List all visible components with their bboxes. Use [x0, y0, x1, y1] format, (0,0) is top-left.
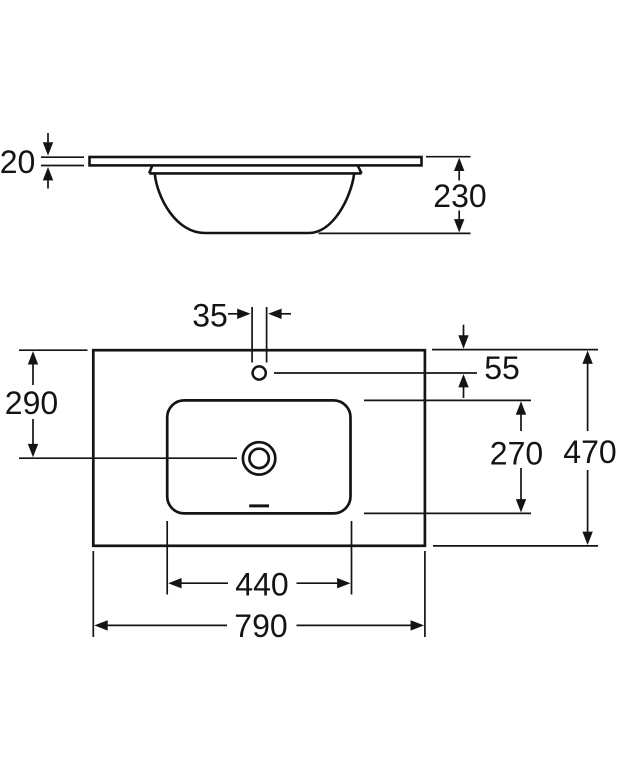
dim 55: upper arrowhead (down)	[458, 335, 468, 348]
dim 270: lower stem	[520, 468, 522, 500]
dim 290: dimension line through drain centre	[19, 457, 237, 459]
mounting flange left slant	[149, 166, 152, 174]
washbasin countertop plate (side profile)	[90, 157, 422, 165]
dim 230: upper stem	[458, 170, 460, 181]
mounting flange right slant	[358, 166, 362, 174]
dim 20: upper arrow stem	[47, 133, 49, 144]
dim 230: upper arrowhead (up)	[454, 158, 464, 171]
dim 790: left extension line	[92, 551, 94, 637]
dim 270: bottom extension line (bowl bottom extended)	[364, 512, 531, 514]
dim 440: left arrowhead (left)	[168, 578, 181, 588]
dim 230: lower stem	[458, 211, 460, 222]
dim 55: hole centre reference line	[274, 372, 477, 374]
dim 790: right arrowhead (right)	[411, 620, 424, 630]
dim 440: right extension line	[351, 521, 353, 595]
bowl opening (rounded rectangle)	[167, 400, 350, 513]
dim 35: right extension line	[266, 307, 268, 363]
drain outer circle	[243, 442, 275, 474]
svg-text:440: 440	[235, 567, 288, 603]
dim 470: upper stem	[587, 362, 589, 431]
dim 290: upper stem	[32, 363, 34, 385]
faucet hole	[253, 366, 266, 379]
dim 35: left arrowhead (right)	[237, 309, 250, 319]
dim 270: upper stem	[520, 413, 522, 431]
dim 290: lower stem	[32, 419, 34, 445]
dim 35: left arrow stem	[228, 313, 239, 315]
dim 440: right arrowhead (right)	[337, 578, 350, 588]
svg-text:290: 290	[5, 385, 58, 421]
dim 20: top extension line	[41, 156, 84, 158]
dim 230: lower arrowhead (down)	[454, 219, 464, 232]
dim 470: lower stem	[587, 470, 589, 534]
dim 35: left extension line	[251, 307, 253, 363]
svg-text:55: 55	[484, 350, 520, 386]
dim 290: upper arrowhead (up)	[28, 351, 38, 364]
dim 35: right arrowhead (left)	[268, 309, 281, 319]
dim 35: right arrow stem	[280, 313, 291, 315]
dim 20: lower arrow stem	[47, 179, 49, 189]
bowl outer profile	[155, 173, 355, 233]
dim 270: lower arrowhead (down)	[516, 499, 526, 512]
svg-text:790: 790	[234, 608, 287, 644]
dim 290: lower arrowhead (down)	[28, 444, 38, 457]
dim 55: lower arrow stem	[463, 386, 465, 398]
dim 270: top extension line (bowl top extended)	[364, 399, 531, 401]
overflow slot mark	[249, 504, 269, 507]
dim 790: left arrowhead (left)	[94, 620, 107, 630]
dim 20: bottom extension line	[41, 165, 84, 167]
dim 55: lower arrowhead (up)	[458, 374, 468, 387]
dim 470: bottom extension line (basin bottom extended)	[433, 545, 598, 547]
svg-text:230: 230	[433, 178, 486, 214]
svg-text:270: 270	[490, 436, 543, 472]
dim 470: upper arrowhead (up)	[582, 351, 592, 364]
mounting flange bottom line	[149, 172, 361, 175]
dim 790: right segment	[297, 624, 413, 626]
svg-text:35: 35	[192, 298, 228, 334]
dim 290: top extension line	[19, 349, 88, 351]
washbasin outline (plan)	[93, 350, 425, 546]
dim 20: lower arrowhead (up)	[43, 167, 53, 180]
dim 470: lower arrowhead (down)	[582, 532, 592, 545]
dim 440: left extension line	[166, 521, 168, 595]
dim 20: upper arrowhead (down)	[43, 142, 53, 155]
dim 230: top extension line	[426, 156, 471, 158]
dim 270: upper arrowhead (up)	[516, 401, 526, 414]
dim 55: top reference line (top edge extended)	[432, 349, 598, 351]
dim 790: left segment	[106, 624, 227, 626]
dim 440: right segment	[297, 582, 339, 584]
svg-text:20: 20	[0, 144, 35, 180]
svg-text:470: 470	[563, 434, 616, 470]
drain inner circle	[249, 449, 268, 468]
dim 790: right extension line	[424, 551, 426, 637]
dim 55: upper arrow stem	[463, 325, 465, 336]
dim 230: bottom extension line	[319, 232, 471, 234]
dim 440: left segment	[180, 582, 228, 584]
